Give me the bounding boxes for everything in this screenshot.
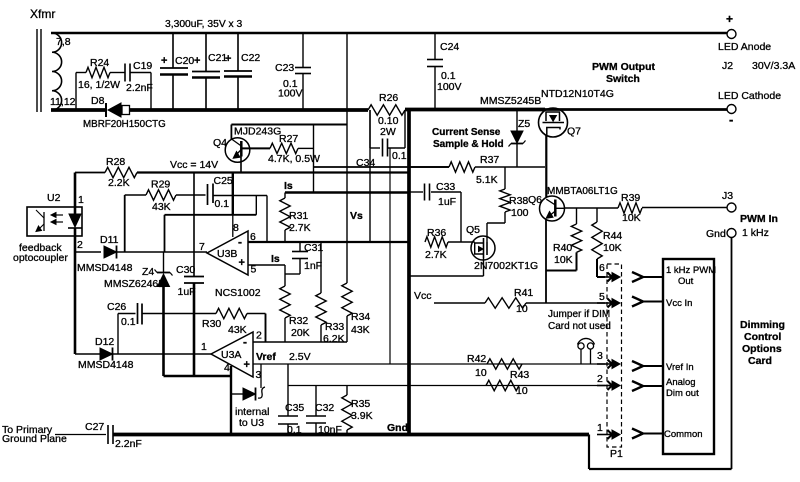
svg-text:43K: 43K xyxy=(351,324,370,336)
resistor R33 6.2K xyxy=(320,242,322,293)
svg-text:43K: 43K xyxy=(228,324,247,336)
svg-text:4.7K, 0.5W: 4.7K, 0.5W xyxy=(268,153,320,165)
svg-text:P1: P1 xyxy=(610,448,623,460)
svg-text:C26: C26 xyxy=(107,301,126,313)
svg-text:LED Anode: LED Anode xyxy=(718,41,771,53)
wire Q6 emitter column xyxy=(545,219,547,303)
svg-text:3,300uF, 35V x 3: 3,300uF, 35V x 3 xyxy=(165,19,243,30)
jumper circles xyxy=(578,343,584,349)
resistor R36 2.7K xyxy=(425,237,448,247)
capacitor C20 electrolytic xyxy=(172,33,174,68)
resistor R39 10K xyxy=(618,203,642,213)
resistor R40 10K xyxy=(576,208,578,224)
svg-text:-: - xyxy=(238,235,242,249)
capacitor C23 0.1 100V xyxy=(302,33,304,68)
svg-text:R38: R38 xyxy=(509,195,528,207)
wire analog dim row xyxy=(288,385,605,387)
svg-text:+: + xyxy=(225,53,231,65)
dimming control options card box xyxy=(663,259,714,454)
transistor Q7 NTD12N10T4G xyxy=(539,108,568,137)
diode D11 MMSD4148 xyxy=(75,251,101,253)
svg-text:1 kHz: 1 kHz xyxy=(742,227,769,239)
svg-text:MJD243G: MJD243G xyxy=(234,126,281,138)
wire Is sense row xyxy=(285,191,409,193)
svg-text:optocoupler: optocoupler xyxy=(13,252,68,264)
resistor R43 10 xyxy=(486,380,519,390)
wire ground bus xyxy=(113,433,589,437)
svg-text:R32: R32 xyxy=(289,315,308,327)
svg-text:Options: Options xyxy=(742,343,782,355)
resistor R35 3.9K xyxy=(346,386,348,396)
svg-text:5.1K: 5.1K xyxy=(476,174,498,186)
svg-text:R34: R34 xyxy=(351,311,370,323)
svg-text:Vref In: Vref In xyxy=(666,362,694,373)
svg-text:R24: R24 xyxy=(90,57,109,69)
svg-text:Jumper if DIM: Jumper if DIM xyxy=(548,309,610,320)
svg-text:J2: J2 xyxy=(722,60,733,72)
svg-text:43K: 43K xyxy=(152,201,171,213)
svg-text:+: + xyxy=(244,359,250,371)
svg-text:3: 3 xyxy=(597,350,603,362)
svg-text:1 kHz PWM: 1 kHz PWM xyxy=(666,265,716,276)
wire ground return bottom row xyxy=(589,468,732,470)
svg-text:C30: C30 xyxy=(176,264,195,276)
resistor R41 10 xyxy=(434,302,485,304)
wire pin8 row left riser xyxy=(164,215,166,252)
wire pin6 row xyxy=(597,276,605,278)
svg-text:2N7002KT1G: 2N7002KT1G xyxy=(474,260,538,272)
svg-text:2: 2 xyxy=(77,239,83,251)
svg-text:Q5: Q5 xyxy=(466,224,480,236)
svg-text:R27: R27 xyxy=(279,133,298,145)
svg-text:C35: C35 xyxy=(285,402,304,414)
svg-text:R43: R43 xyxy=(510,369,529,381)
op-amp U3A NCS1002 xyxy=(211,332,253,377)
svg-text:+: + xyxy=(239,257,245,269)
svg-text:2.2nF: 2.2nF xyxy=(126,82,153,94)
wire Gnd terminal column xyxy=(731,238,733,470)
card side arrow Common xyxy=(632,429,643,439)
resistor R30 43K xyxy=(164,313,217,315)
svg-text:MMBTA06LT1G: MMBTA06LT1G xyxy=(547,186,618,197)
wire column 370 xyxy=(369,110,371,242)
resistor R26 0.10 2W xyxy=(368,105,405,115)
capacitor C34 0.1 xyxy=(369,110,371,148)
svg-text:Analog: Analog xyxy=(666,377,696,388)
svg-text:R33: R33 xyxy=(325,321,344,333)
svg-text:C25: C25 xyxy=(214,175,233,187)
capacitor C22 electrolytic xyxy=(237,33,239,71)
svg-text:4: 4 xyxy=(224,362,230,374)
wire Vref row xyxy=(253,363,605,365)
capacitor C31 1nF xyxy=(299,242,301,252)
svg-text:R30: R30 xyxy=(202,318,221,330)
svg-text:D8: D8 xyxy=(91,95,105,107)
svg-text:Switch: Switch xyxy=(606,73,640,85)
svg-text:Q7: Q7 xyxy=(567,126,581,138)
svg-text:2.7K: 2.7K xyxy=(289,222,311,234)
wire bus after D8 xyxy=(130,108,369,112)
resistor R28 2.2K xyxy=(105,167,137,177)
diode internal to U3 xyxy=(231,393,243,395)
svg-text:0.1: 0.1 xyxy=(392,150,407,162)
svg-text:6.2K: 6.2K xyxy=(323,333,345,345)
svg-text:PWM In: PWM In xyxy=(740,213,778,225)
diode D12 MMSD4148 xyxy=(74,252,77,354)
svg-text:1: 1 xyxy=(201,341,207,353)
svg-text:100V: 100V xyxy=(278,88,303,100)
wire bus R26 to Q7 and LED cathode xyxy=(405,108,545,112)
svg-text:Vcc: Vcc xyxy=(414,290,432,302)
capacitor C33 1uF xyxy=(409,191,423,193)
card side arrow Analog Dim out xyxy=(632,381,643,391)
svg-text:2: 2 xyxy=(597,373,603,385)
svg-text:Gnd: Gnd xyxy=(706,228,726,240)
wire U3B pin6 row to R36 and Q5 gate xyxy=(248,241,409,243)
svg-text:R36: R36 xyxy=(427,227,446,239)
card side arrow Vcc In xyxy=(632,297,643,307)
svg-text:2.5V: 2.5V xyxy=(289,351,311,363)
svg-text:-: - xyxy=(729,112,733,127)
card side arrow 1kHz PWM Out xyxy=(632,272,643,282)
wire Q4 collector column xyxy=(230,125,232,140)
resistor R31 2.7K xyxy=(284,193,286,199)
svg-text:PWM Output: PWM Output xyxy=(592,61,655,73)
svg-text:MMSZ6246B: MMSZ6246B xyxy=(104,278,165,290)
transistor Q5 2N7002KT1G xyxy=(471,236,495,260)
svg-text:10nF: 10nF xyxy=(318,424,342,436)
svg-text:-: - xyxy=(243,335,247,349)
svg-text:R28: R28 xyxy=(106,156,125,168)
card side arrow Vref In xyxy=(632,361,643,371)
svg-text:100V: 100V xyxy=(437,81,462,93)
svg-text:U3B: U3B xyxy=(217,248,237,260)
capacitor C35 0.1 xyxy=(287,364,289,416)
svg-text:Vcc In: Vcc In xyxy=(666,298,692,309)
resistor R38 100 xyxy=(504,167,506,189)
svg-text:Card not used: Card not used xyxy=(548,321,611,332)
svg-text:+: + xyxy=(161,55,167,67)
wire U2 column xyxy=(74,173,77,215)
resistor R34 43K xyxy=(346,33,348,283)
svg-text:R37: R37 xyxy=(480,154,499,166)
svg-text:8: 8 xyxy=(233,222,239,234)
svg-text:C33: C33 xyxy=(436,181,455,193)
svg-text:7,8: 7,8 xyxy=(56,36,71,48)
svg-text:2W: 2W xyxy=(380,126,396,138)
svg-text:Dimming: Dimming xyxy=(740,319,785,331)
wire Q4 collector row xyxy=(231,124,347,126)
wire Q6 base row to R39 xyxy=(564,207,618,209)
svg-text:2.2nF: 2.2nF xyxy=(115,438,142,450)
capacitor C19 2.2nF xyxy=(124,64,126,82)
svg-text:10: 10 xyxy=(516,385,528,397)
svg-text:R42: R42 xyxy=(467,353,486,365)
wire pin6 riser column xyxy=(266,196,268,243)
svg-text:30V/3.3A: 30V/3.3A xyxy=(752,60,795,72)
svg-text:0.1: 0.1 xyxy=(215,198,230,210)
svg-text:LED Cathode: LED Cathode xyxy=(718,90,781,102)
wire jog column row196 to row215 xyxy=(255,196,257,215)
svg-text:C19: C19 xyxy=(133,60,152,72)
svg-text:20K: 20K xyxy=(291,327,310,339)
svg-text:5: 5 xyxy=(599,291,605,303)
svg-text:2.7K: 2.7K xyxy=(425,249,447,261)
svg-text:R26: R26 xyxy=(379,92,398,104)
wire U3B pin8 supply row xyxy=(165,214,257,216)
svg-text:10: 10 xyxy=(475,367,487,379)
svg-text:J3: J3 xyxy=(722,190,733,202)
svg-text:C24: C24 xyxy=(440,41,459,53)
wire top bus +35V rail xyxy=(51,32,727,35)
svg-text:Gnd: Gnd xyxy=(387,422,408,434)
resistor R29 43K xyxy=(125,194,146,196)
svg-text:2: 2 xyxy=(256,330,262,342)
zener Z5 MMSZ5245B xyxy=(516,110,518,132)
svg-text:R31: R31 xyxy=(289,210,308,222)
svg-text:MMSD4148: MMSD4148 xyxy=(78,359,134,371)
wire R29 left column down to D11 row xyxy=(124,195,126,252)
optocoupler U2 xyxy=(27,207,82,236)
svg-text:1: 1 xyxy=(597,422,603,434)
svg-text:C22: C22 xyxy=(241,52,260,64)
wire U3A pin4 ground column xyxy=(230,366,232,434)
resistor R32 20K xyxy=(284,265,286,286)
svg-text:C27: C27 xyxy=(85,421,104,433)
svg-text:Common: Common xyxy=(664,429,703,440)
svg-text:0.1: 0.1 xyxy=(287,424,302,436)
capacitor C25 0.1 xyxy=(176,194,206,196)
wire U3B pin8 column xyxy=(232,173,234,215)
svg-text:C20: C20 xyxy=(175,55,194,67)
svg-text:+: + xyxy=(194,55,200,67)
svg-text:Vs: Vs xyxy=(350,210,363,222)
svg-text:D11: D11 xyxy=(100,234,119,246)
svg-text:3.9K: 3.9K xyxy=(351,410,373,422)
svg-text:Is: Is xyxy=(284,180,293,192)
capacitor C24 0.1 100V xyxy=(434,33,436,60)
op-amp U3B NCS1002 xyxy=(207,231,248,275)
transformer T1 core xyxy=(36,29,38,112)
svg-text:6: 6 xyxy=(599,262,605,274)
svg-text:7: 7 xyxy=(199,241,205,253)
resistor R27 4.7K 0.5W xyxy=(242,147,270,149)
svg-text:R44: R44 xyxy=(603,230,622,242)
svg-text:MMSZ5245B: MMSZ5245B xyxy=(480,95,541,107)
capacitor C30 1uF xyxy=(193,173,195,277)
svg-text:MBRF20H150CTG: MBRF20H150CTG xyxy=(83,119,166,130)
capacitor C26 0.1 xyxy=(117,314,119,355)
svg-text:1: 1 xyxy=(78,194,84,206)
resistor R37 5.1K xyxy=(409,166,449,168)
svg-text:Vcc = 14V: Vcc = 14V xyxy=(170,159,218,171)
svg-text:C23: C23 xyxy=(275,62,294,74)
svg-text:Z4: Z4 xyxy=(142,266,154,278)
svg-text:10K: 10K xyxy=(554,254,573,266)
svg-text:+: + xyxy=(726,12,733,26)
svg-text:10K: 10K xyxy=(622,212,641,224)
wire sample row 167 xyxy=(314,166,450,168)
transistor Q6 MMBTA06LT1G xyxy=(540,196,565,221)
svg-text:Card: Card xyxy=(748,355,772,367)
resistor R24 16 1/2W xyxy=(75,73,77,111)
svg-text:R41: R41 xyxy=(514,287,533,299)
transformer T1 secondary winding xyxy=(52,33,62,110)
wire Q7 source to Q6 collector xyxy=(545,135,547,197)
wire R27 right column xyxy=(313,125,315,193)
svg-text:MMSD4148: MMSD4148 xyxy=(77,262,133,274)
svg-text:100: 100 xyxy=(511,207,529,219)
connector P1 dashed outline xyxy=(607,264,622,447)
wire column 390 to Vref row xyxy=(389,148,391,364)
svg-text:U3A: U3A xyxy=(221,349,241,361)
zener Z4 MMSZ6246B xyxy=(163,252,165,273)
svg-text:Out: Out xyxy=(678,276,694,287)
svg-text:NTD12N10T4G: NTD12N10T4G xyxy=(541,88,614,100)
svg-text:D12: D12 xyxy=(95,336,114,348)
wire U3B pin5 Is row xyxy=(248,264,285,266)
svg-text:1nF: 1nF xyxy=(304,260,322,272)
svg-text:Control: Control xyxy=(744,331,781,343)
diode D8 MBRF20H150CTG xyxy=(105,103,107,117)
wire main vertical bus xyxy=(407,109,411,435)
svg-text:16, 1/2W: 16, 1/2W xyxy=(78,79,120,91)
svg-text:C32: C32 xyxy=(315,402,334,414)
svg-text:to U3: to U3 xyxy=(239,417,264,429)
svg-text:Dim out: Dim out xyxy=(666,388,699,399)
svg-text:0.1: 0.1 xyxy=(121,316,136,328)
svg-text:10: 10 xyxy=(516,303,528,315)
svg-text:2.2K: 2.2K xyxy=(108,177,130,189)
svg-text:R40: R40 xyxy=(553,242,572,254)
svg-text:Sample & Hold: Sample & Hold xyxy=(433,139,504,150)
svg-text:10K: 10K xyxy=(603,242,622,254)
svg-text:1uF: 1uF xyxy=(438,196,456,208)
svg-text:Q6: Q6 xyxy=(528,194,542,206)
wire U3A pin2 row xyxy=(253,341,347,343)
svg-text:R29: R29 xyxy=(151,179,170,191)
svg-text:R39: R39 xyxy=(621,192,640,204)
wire Vcc 14V rail xyxy=(75,172,105,174)
transistor Q4 MJD243G xyxy=(225,138,250,163)
svg-text:Xfmr: Xfmr xyxy=(30,7,55,21)
svg-text:Is: Is xyxy=(271,253,280,265)
svg-text:11,12: 11,12 xyxy=(50,96,76,108)
svg-text:Current Sense: Current Sense xyxy=(432,127,501,138)
capacitor C32 10nF xyxy=(315,386,317,417)
resistor R42 10 xyxy=(487,359,522,369)
svg-text:NCS1002: NCS1002 xyxy=(215,287,261,299)
svg-text:Z5: Z5 xyxy=(518,118,530,130)
svg-text:U2: U2 xyxy=(47,192,61,204)
svg-text:1uF: 1uF xyxy=(178,286,196,298)
svg-text:Vref: Vref xyxy=(256,351,276,363)
wire pin1 drop column xyxy=(588,435,590,470)
wire bottom rectified bus xyxy=(51,108,106,112)
svg-text:R35: R35 xyxy=(351,398,370,410)
capacitor C21 electrolytic xyxy=(205,33,207,72)
svg-text:Q4: Q4 xyxy=(213,137,227,149)
resistor R44 10K xyxy=(596,208,598,222)
wire ground return row 376 xyxy=(164,375,232,377)
